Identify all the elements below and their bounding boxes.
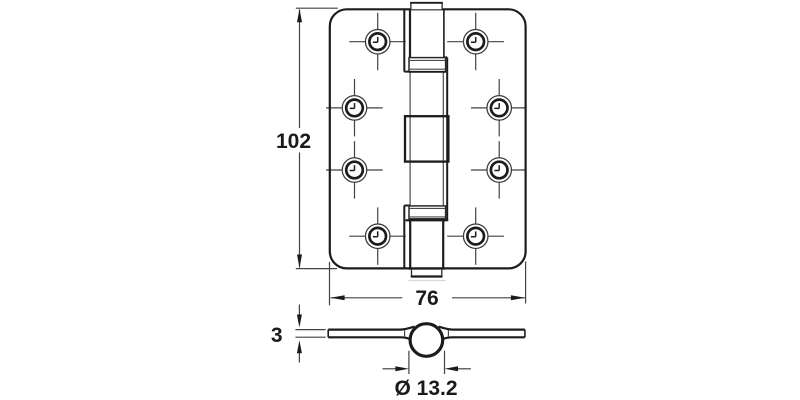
hole C2 circles [487,158,512,183]
arrow 13.2 left (right-pointing) [395,366,409,371]
arrow 76 left [331,295,345,300]
arrow 13.2 right (left-pointing) [445,366,459,371]
hole D2 circles [463,224,488,249]
barrel circle [410,324,443,357]
dim 3 line above [298,305,300,316]
crosshair hole B2 [471,107,527,109]
hole B1 circles [342,96,367,121]
screw slot mark A1 [373,37,378,42]
pin bottom cap [411,270,443,277]
faint line under pin cap [409,280,447,282]
pin top cap [410,3,443,10]
left leaf bar [328,327,414,340]
left leaf bend tick [404,330,406,337]
dim 3 ext lines [295,305,325,363]
crosshair hole D2 [447,235,504,237]
top knuckle [409,9,411,57]
dim 13.2 tail left [383,368,397,370]
crosshair hole C2 [471,169,527,171]
right leaf bend tick [447,330,449,337]
arrow 76 right [511,295,525,300]
dim line 102 lower [299,153,301,268]
crosshair hole A1 [349,41,406,43]
right leaf cutout edge [443,57,448,220]
dim 13.2 ext lines [383,351,471,374]
hole A1 circles [365,29,390,54]
arrow 102 bottom [297,255,302,269]
ext line top (102) [296,7,338,9]
dim 13.2 tail right [457,368,471,370]
screw slot mark B1 [350,103,355,108]
pin shaft lines [410,72,443,207]
screw slot mark D1 [373,231,378,236]
ext line left (76) [329,262,331,305]
arrow 3 lower (up) [297,340,302,353]
dim line 76 left [331,297,403,299]
hole A2 circles [463,29,488,54]
crosshair hole C1 [326,169,383,171]
arrow 102 top [297,9,302,23]
screw slot mark C1 [350,165,355,170]
right leaf bar [439,327,525,340]
screw slot mark C2 [494,165,499,170]
knuckle bottom edge [409,268,445,270]
dim 3 line below [298,351,300,363]
left leaf cutout edge lower [404,206,410,269]
screw slot mark A2 [471,37,476,42]
bottom knuckle [410,220,443,268]
dim line 102 upper [299,10,301,129]
middle knuckle block [405,116,448,161]
crosshair hole B1 [326,107,383,109]
hole D1 circles [365,224,390,249]
hole B2 circles [487,96,512,121]
svg-text:102: 102 [276,130,311,153]
bearing band 2 [409,206,446,219]
hole C1 circles [342,158,367,183]
bearing band 1 [409,58,446,72]
ext line bottom (102) [296,268,337,270]
svg-text:Ø 13.2: Ø 13.2 [394,377,457,400]
outline rounded rect [330,9,526,268]
screw slot mark B2 [494,103,499,108]
dim line 76 right [452,297,525,299]
ext line right (76) [525,262,527,304]
left leaf cutout edge upper [404,9,410,71]
svg-text:3: 3 [271,324,283,347]
crosshair hole A2 [447,41,504,43]
svg-text:76: 76 [415,287,438,310]
crosshair hole D1 [349,235,406,237]
screw slot mark D2 [471,231,476,236]
arrow 3 upper (down) [297,315,302,328]
